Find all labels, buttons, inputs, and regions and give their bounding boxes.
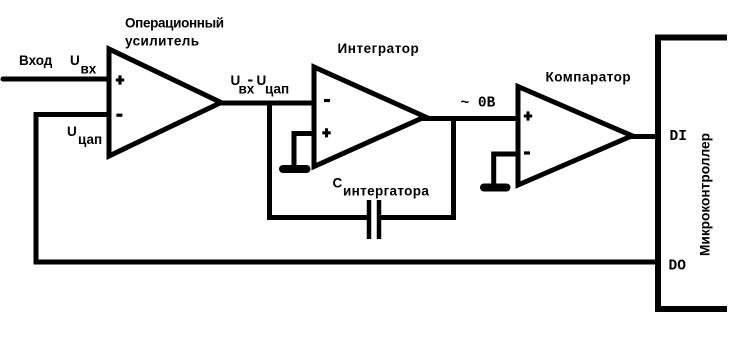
microcontroller box (Микроконтроллер) <box>658 38 727 310</box>
label: integrator plus input <box>322 128 330 137</box>
svg-text:усилитель: усилитель <box>125 34 199 49</box>
wire: op-amp output to integrator input <box>219 101 316 106</box>
svg-text:Интегратор: Интегратор <box>338 41 420 56</box>
svg-text:U: U <box>70 53 80 68</box>
label: op-amp plus input <box>116 75 124 84</box>
wire: capacitor loop bottom left segment <box>267 215 367 220</box>
svg-text:вх: вх <box>81 62 97 77</box>
capacitor C plate 1 <box>367 200 372 239</box>
svg-text:DI: DI <box>670 129 687 145</box>
svg-text:Операционный: Операционный <box>125 16 224 31</box>
svg-text:U: U <box>67 124 77 139</box>
label: op-amp minus input <box>116 114 122 117</box>
svg-text:~ 0В: ~ 0В <box>461 96 496 112</box>
integrator U2 (Интегратор) <box>314 67 425 167</box>
wire: input signal line <box>3 77 111 82</box>
svg-text:DO: DO <box>669 259 687 275</box>
capacitor C plate 2 <box>377 200 382 239</box>
svg-text:-: - <box>248 70 254 89</box>
wire: comparator ground stub <box>494 154 520 184</box>
svg-text:интергатора: интергатора <box>343 184 429 199</box>
svg-text:Компаратор: Компаратор <box>546 70 632 85</box>
wire: integrator output to comparator <box>422 116 516 121</box>
comparator U3 (Компаратор) <box>518 87 632 186</box>
svg-text:цап: цап <box>265 82 289 97</box>
svg-text:С: С <box>333 176 343 191</box>
wire: integrator ground stub <box>294 134 316 167</box>
wire: junction drop from output to capacitor loop <box>267 103 272 220</box>
svg-text:цап: цап <box>78 132 102 147</box>
wire: DAC feedback to op-amp minus input <box>34 112 112 117</box>
wire: comparator output to DI <box>630 134 660 139</box>
label: comparator minus input <box>524 151 530 154</box>
ground (integrator) <box>283 165 307 173</box>
wire: capacitor loop right vertical <box>451 116 456 220</box>
wire: capacitor loop bottom right segment <box>381 215 456 220</box>
ground (comparator) <box>484 184 507 192</box>
op-amp U1 (Операционный усилитель) <box>109 49 221 156</box>
svg-text:Вход: Вход <box>19 53 53 68</box>
label: comparator plus input <box>524 111 532 120</box>
wire: bottom feedback from DO <box>34 260 659 265</box>
label: integrator minus input <box>324 99 330 102</box>
svg-text:Микроконтроллер: Микроконтроллер <box>698 133 713 256</box>
wire: left vertical feedback <box>34 112 39 265</box>
